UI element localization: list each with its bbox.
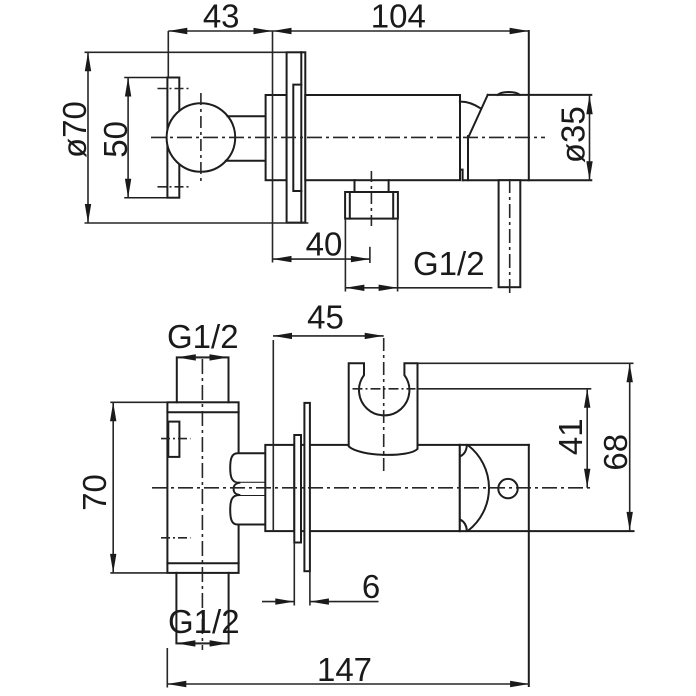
head fill	[468, 95, 529, 180]
shower holder	[349, 363, 418, 455]
head right edge + 104 ext	[528, 31, 530, 180]
body hole tick lower	[161, 537, 191, 539]
6 ext right	[309, 571, 311, 605]
main axis centerline	[151, 136, 545, 138]
outlet nut	[345, 192, 398, 219]
outlet pipe bottom	[176, 573, 228, 644]
head right edge + 147 ext	[528, 445, 530, 686]
svg-text:104: 104	[371, 0, 426, 35]
nut corner fillet top	[460, 445, 467, 456]
drop pipe centerline	[509, 179, 511, 296]
nut corner fillet bottom	[460, 520, 467, 531]
nut face	[459, 445, 461, 531]
horizontal pipe with flange	[265, 445, 460, 531]
body top cap line	[167, 411, 238, 413]
43 left ext	[167, 31, 169, 77]
head top edge	[460, 444, 529, 446]
dia70 bottom ext	[85, 222, 309, 224]
svg-text:6: 6	[362, 568, 380, 605]
ball joint circle	[167, 103, 236, 172]
bracket hole tick bottom	[158, 186, 189, 188]
nut ext right	[397, 219, 399, 292]
wall flange	[266, 95, 287, 180]
lower union bump	[230, 495, 265, 525]
plate strip inner	[294, 435, 301, 543]
head left face	[467, 136, 469, 180]
68 dim line	[629, 363, 631, 531]
body cylinder	[305, 95, 460, 180]
outlet stem left	[354, 180, 356, 192]
70 dim line	[112, 402, 114, 573]
6 dim line left tail	[262, 601, 294, 603]
wall plane ext bottom view	[272, 340, 274, 531]
41 dim line	[586, 389, 588, 488]
holder vertical centerline	[383, 338, 385, 472]
bracket ext bottom	[125, 197, 167, 199]
head bottom + dia35 ext	[463, 179, 592, 181]
outlet centerline	[370, 171, 372, 228]
svg-text:43: 43	[203, 0, 240, 35]
nut inner right	[392, 192, 394, 219]
svg-text:68: 68	[597, 434, 634, 471]
button circle	[498, 479, 517, 498]
main horizontal centerline	[152, 487, 591, 489]
bump waist fill	[234, 483, 265, 495]
147 left ext	[166, 648, 168, 688]
nut ext left	[344, 219, 346, 292]
escutcheon plate	[287, 52, 306, 222]
bracket hole tick top	[158, 88, 189, 90]
41 solid ext	[418, 388, 592, 390]
40 right ext	[369, 247, 371, 263]
plate strip outer dia70	[304, 403, 310, 571]
plate front face line	[300, 52, 302, 222]
6 dim line right tail	[310, 601, 379, 603]
head diagonal	[469, 95, 488, 136]
dia70 dim line	[87, 52, 89, 223]
svg-text:70: 70	[76, 474, 113, 511]
nut inner left	[349, 192, 351, 219]
dia70 top ext	[85, 51, 287, 53]
bump waist	[234, 483, 240, 495]
body bottom cap line	[167, 562, 238, 564]
connector stub upper	[228, 115, 266, 117]
ball vertical centerline	[200, 93, 202, 183]
svg-text:G1/2: G1/2	[413, 245, 485, 282]
70 bottom ext	[110, 572, 167, 574]
dim line 43/104	[168, 30, 528, 32]
body hole tick upper	[161, 438, 191, 440]
upper union bump	[230, 453, 265, 483]
side tab	[168, 422, 179, 457]
G1/2 top leader	[177, 356, 229, 358]
50 dim line	[127, 78, 129, 198]
68 top ext	[418, 362, 634, 364]
outlet stem right	[388, 180, 390, 192]
wall bracket plate	[167, 78, 179, 198]
svg-text:45: 45	[307, 299, 344, 336]
holder horizontal centerline	[353, 388, 416, 390]
head top dome bump	[498, 92, 520, 95]
bracket ext top	[125, 77, 167, 79]
svg-text:41: 41	[552, 418, 589, 455]
svg-text:40: 40	[306, 226, 343, 263]
body-head fillet arc	[460, 102, 480, 109]
45 dim line	[273, 335, 384, 337]
svg-text:G1/2: G1/2	[167, 318, 239, 355]
svg-text:ø70: ø70	[56, 101, 93, 158]
svg-text:147: 147	[317, 651, 372, 688]
dia35 dim line	[589, 95, 591, 180]
wall plane ext line	[272, 31, 274, 263]
arrows bottom view	[177, 354, 196, 360]
collar through plate	[293, 85, 301, 191]
svg-text:ø35: ø35	[555, 106, 592, 163]
head top + dia35 ext	[488, 94, 592, 96]
70 top ext	[110, 401, 167, 403]
inlet pipe top	[177, 357, 229, 402]
40 dim line	[273, 258, 370, 260]
flange right edge	[293, 445, 295, 531]
BOTTOM VIEW	[167, 357, 633, 686]
body vertical centerline	[201, 359, 203, 650]
G1/2 bottom leader	[176, 642, 228, 644]
svg-text:50: 50	[97, 121, 134, 158]
connector stub lower	[226, 160, 266, 162]
147 dim line	[167, 683, 529, 685]
arrows top view	[168, 28, 187, 34]
head notch	[460, 170, 463, 181]
head block	[460, 445, 529, 531]
nut dome arc	[468, 446, 489, 531]
G1/2 leader top view	[345, 287, 492, 289]
head bottom edge + 68 ext	[460, 530, 634, 532]
6 ext left	[293, 543, 295, 606]
drop pipe	[499, 180, 521, 287]
body front	[167, 402, 238, 573]
svg-text:G1/2: G1/2	[168, 603, 240, 640]
